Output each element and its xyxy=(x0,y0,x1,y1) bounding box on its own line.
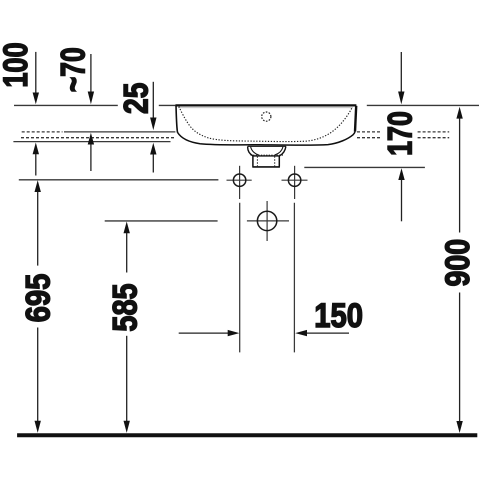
level line A solid left xyxy=(64,131,175,133)
level line A dashed right 1 xyxy=(357,131,381,133)
svg-text:~70: ~70 xyxy=(54,47,92,92)
level line B dashed left xyxy=(21,137,175,139)
trap flange inner left arc xyxy=(251,147,259,155)
trap tailpipe left wall xyxy=(252,156,254,167)
left fixing hole circle xyxy=(233,174,245,186)
dim 70 lower arrow xyxy=(88,133,94,145)
svg-text:100: 100 xyxy=(0,42,35,87)
dim 695 lower line and arrow xyxy=(37,328,39,422)
dim 170 lower arrow xyxy=(398,168,404,180)
washbasin rim xyxy=(175,104,356,106)
floor line xyxy=(17,433,477,437)
dim 100 lower arrow xyxy=(33,143,39,155)
dim 25 upper arrow xyxy=(152,82,154,118)
level line A dashed right 2 xyxy=(418,131,450,133)
washbasin underside curve xyxy=(178,132,356,145)
extension line at basin bottom right xyxy=(304,166,425,168)
wall reference line mid segment xyxy=(159,104,176,106)
drain crosshair horizontal xyxy=(247,220,289,222)
left fixing hole crosshair vertical xyxy=(239,166,241,199)
wall reference line right segment xyxy=(367,104,479,106)
wall reference line left segment xyxy=(14,104,118,106)
right fixing hole circle xyxy=(288,174,300,186)
dim 25 lower arrow xyxy=(150,143,156,155)
trap tailpipe inner dashed right xyxy=(274,156,276,166)
dim 170 upper arrow xyxy=(400,52,402,92)
svg-text:25: 25 xyxy=(117,83,155,114)
trap flange top edge xyxy=(248,145,286,147)
level line C solid xyxy=(13,141,170,143)
dim 900 lower line and arrow xyxy=(459,293,461,422)
svg-text:695: 695 xyxy=(18,274,57,323)
trap tailpipe right wall xyxy=(278,156,280,167)
level line A dashed left xyxy=(22,131,63,133)
svg-text:150: 150 xyxy=(314,296,363,335)
svg-text:900: 900 xyxy=(439,239,477,287)
left fixing hole crosshair horizontal xyxy=(227,179,252,181)
drain crosshair vertical xyxy=(266,201,268,241)
washbasin left edge xyxy=(176,105,178,132)
extension line at drain level xyxy=(105,220,218,222)
dim 100 upper arrow xyxy=(35,52,37,93)
drain circle xyxy=(257,211,276,230)
right hole projection line down xyxy=(293,203,295,353)
trap flange outline xyxy=(248,146,286,156)
washbasin inner rim faint line xyxy=(178,107,353,109)
right fixing hole crosshair vertical xyxy=(294,166,296,199)
faucet hole dotted circle xyxy=(262,112,271,121)
extension line at fixing holes level xyxy=(19,179,219,181)
dim 150 left arrow xyxy=(179,332,229,334)
trap tailpipe inner dashed left xyxy=(256,156,258,166)
dim 585 lower line and arrow xyxy=(126,336,128,422)
dim 695 upper arrow xyxy=(35,180,41,192)
svg-text:585: 585 xyxy=(105,283,144,331)
dim 150 right arrow xyxy=(295,330,307,336)
level line B dashed right 2 xyxy=(418,137,450,139)
left hole projection line down xyxy=(239,203,241,353)
dim 70 upper arrow xyxy=(90,54,92,92)
right fixing hole crosshair horizontal xyxy=(282,179,308,181)
washbasin inner bowl hidden dotted curve xyxy=(179,107,352,142)
trap flange dotted band xyxy=(251,154,284,156)
trap tailpipe bottom edge xyxy=(252,166,280,168)
dim 585 upper arrow xyxy=(124,222,130,234)
dim 900 upper arrow xyxy=(456,107,462,119)
level line B dashed right 1 xyxy=(357,137,381,139)
washbasin right edge xyxy=(355,106,356,132)
svg-text:170: 170 xyxy=(382,111,420,156)
trap flange inner right arc xyxy=(275,147,283,155)
